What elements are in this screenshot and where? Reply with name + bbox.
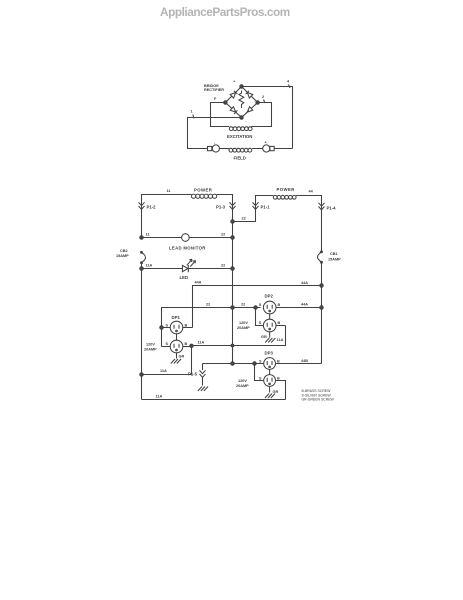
node V2 bottom [231,362,234,365]
svg-text:4: 4 [287,80,290,84]
node 11 [140,236,143,239]
diode D4 lower-right [247,107,253,112]
ground symbol DP2 [265,338,275,343]
svg-text:LEAD MONITOR: LEAD MONITOR [169,246,206,251]
ground symbol DP1 [171,359,181,364]
circuit breaker CB1 15AMP [318,252,322,262]
svg-text:11A: 11A [156,395,163,399]
wire 44A row [193,286,322,328]
svg-text:EXCITATION: EXCITATION [227,134,252,139]
pin P1-3 [230,202,236,209]
diode D2 upper-right [247,92,253,98]
wire DP1 top terminals [162,327,193,329]
wire DP2 S jumper [256,308,264,326]
junction at 22 vertical crossing [231,344,234,347]
field winding coil [220,148,263,150]
field brush right square [270,146,274,150]
wire to right vertical [274,148,292,150]
wire DP2 top B to 44A [276,307,322,309]
LED row wire [142,268,233,270]
svg-text:-: - [246,120,248,124]
svg-text:GR: GR [273,390,279,394]
svg-text:P1-4: P1-4 [327,206,337,211]
left POWER winding wire 11 [142,195,192,238]
svg-text:11A: 11A [198,341,205,345]
receptacle DP2 bottom outlet [263,319,276,332]
svg-text:DP1: DP1 [172,315,181,320]
excitation loop wire left [211,103,230,127]
svg-text:S: S [259,321,262,325]
pin P1-2 [139,202,145,209]
svg-text:S: S [166,342,169,346]
svg-text:20AMP: 20AMP [236,384,249,388]
DP1 ground stub [176,353,178,359]
receptacle DP3 top outlet [264,358,276,370]
svg-text:11A: 11A [277,338,284,342]
node 44A right [320,284,323,287]
svg-text:LED: LED [180,275,189,280]
svg-text:120V: 120V [238,379,247,383]
wire 44 to right vertical [296,196,321,253]
ground symbol DP3 [265,394,275,399]
wire DP3 row [203,363,264,365]
LED D5 [182,265,188,272]
wire 22 row [162,308,261,347]
svg-text:15AMP: 15AMP [328,258,341,262]
svg-text:S: S [166,324,169,328]
DP3 rating label [236,379,249,388]
wire 22 jog [233,196,274,222]
svg-text:GR-GREEN SCREW: GR-GREEN SCREW [302,398,335,402]
svg-text:GR: GR [261,335,267,339]
receptacle DP2 top outlet [263,301,276,314]
node 22/V2 junction [231,306,234,309]
wire DP3 bottom B loop [276,381,286,400]
svg-text:+: + [233,80,236,84]
bridge diamond wires [225,87,257,118]
tick wire 4 [289,85,291,89]
svg-text:P1-3: P1-3 [216,205,226,210]
field brush left square [208,146,212,150]
receptacle DP1 top outlet [170,321,183,334]
receptacle DP2 label [265,294,274,299]
svg-text:DP3: DP3 [265,351,274,356]
svg-text:FIELD: FIELD [234,156,246,161]
node DP2 S jumper top [254,306,257,309]
pin P1-4 [319,203,325,210]
svg-text:P1-1: P1-1 [261,205,271,210]
svg-text:44A: 44A [195,281,202,285]
svg-text:POWER: POWER [277,187,296,192]
svg-text:20AMP: 20AMP [144,348,157,352]
svg-text:11: 11 [146,233,150,237]
wire DP3 S jumper [255,364,264,381]
wire 4 top: bridge + to right vertical [242,87,293,149]
svg-text:11: 11 [167,189,171,193]
tick wire 2 [264,100,266,104]
wire right vertical below CB1 [321,262,323,363]
DP2 rating label [237,321,250,330]
svg-text:B: B [277,359,280,363]
node DP2 44A [320,306,323,309]
node right AC [256,101,259,104]
svg-text:20AMP: 20AMP [237,326,250,330]
node + (top) [240,85,243,88]
wire 1: bridge - to field left [188,118,242,149]
wire DP1 bottom terminals [162,346,192,348]
svg-text:F: F [214,97,217,101]
svg-text:B: B [278,321,281,325]
tick wire 1 [193,115,194,119]
svg-text:+: + [265,141,268,145]
svg-text:S: S [259,303,262,307]
svg-text:120V: 120V [146,343,155,347]
svg-text:P1-2: P1-2 [147,205,157,210]
svg-text:CB1: CB1 [330,252,338,256]
center varistor zigzag [239,91,244,108]
svg-text:44A: 44A [301,303,308,307]
svg-text:CB2: CB2 [120,249,128,253]
svg-text:2: 2 [262,95,264,99]
svg-text:B: B [277,376,280,380]
wire DP3 top B 44B [276,363,322,365]
wire left vertical below CB2 [141,263,143,400]
svg-text:P1-5: P1-5 [188,372,198,377]
svg-text:22: 22 [221,264,225,268]
receptacle DP3 bottom outlet [264,375,276,387]
pin P1-5 [200,364,206,386]
node F (left AC) [224,101,227,104]
diode D1 upper-left [230,92,236,98]
node 22 [231,267,234,270]
pin P1-1 [253,202,259,209]
lead monitor lamp [182,234,190,242]
svg-text:GR: GR [179,354,185,358]
svg-text:B: B [185,324,188,328]
svg-text:AppliancePartsPros.com: AppliancePartsPros.com [160,5,290,19]
ground symbol P1-5 [198,387,208,392]
node DP3 S feed [253,362,256,365]
svg-text:RECTIFIER: RECTIFIER [204,88,224,92]
node DP1 top S [160,326,163,329]
wire 11A mid row DP1-B to DP2-B loop [192,326,286,375]
node 11A [190,344,193,347]
svg-text:S: S [259,359,262,363]
wire coil to P1-3 [217,195,233,364]
svg-text:DP2: DP2 [265,294,274,299]
wire DP2 bottom B [276,325,286,327]
svg-text:POWER: POWER [194,188,213,193]
left POWER winding coil [192,194,196,198]
svg-text:S: S [259,376,262,380]
svg-text:11A: 11A [146,264,153,268]
svg-text:22: 22 [242,217,246,221]
receptacle DP1 bottom outlet [170,340,183,353]
svg-text:44A: 44A [301,281,308,285]
right POWER winding coil [273,195,277,199]
DP2 ground stub [269,332,271,338]
excitation winding coil [229,127,233,131]
DP1 rating label [144,343,157,352]
svg-text:15AMP: 15AMP [116,254,129,258]
node 22 [231,236,234,239]
diode D3 lower-left [230,107,236,112]
svg-text:44B: 44B [301,359,308,363]
legend screw colors [302,389,335,402]
svg-text:1: 1 [191,110,193,114]
svg-text:22: 22 [241,303,245,307]
field brush left ring [212,145,219,152]
svg-text:44: 44 [309,190,314,194]
receptacle DP1 label [172,315,181,320]
svg-text:B: B [185,342,188,346]
wire 11A lower row [142,374,192,376]
svg-text:120V: 120V [239,321,248,325]
excitation loop wire right [251,103,271,127]
circuit breaker CB2 15AMP [142,253,146,263]
lead monitor row wire [142,237,233,239]
bridge rectifier BR1 label [204,84,224,92]
receptacle DP3 label [265,351,274,356]
right POWER winding label [277,187,296,192]
wire bottom 11A row [142,399,286,401]
svg-text:22: 22 [206,303,210,307]
node - (bottom) [240,116,243,119]
svg-text:22: 22 [221,233,225,237]
junction 22 [231,220,234,223]
node 11A [140,267,143,270]
DP3 ground stub [269,386,271,392]
svg-text:11A: 11A [160,369,167,373]
svg-text:B: B [278,303,281,307]
field brush right ring [263,145,270,152]
